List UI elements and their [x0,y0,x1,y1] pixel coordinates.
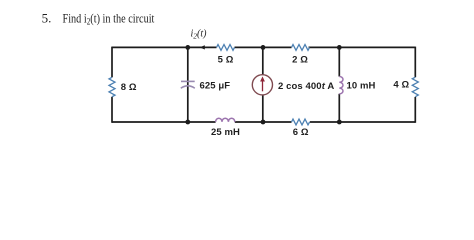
current source arrow [262,81,264,92]
wire capacitor branch (continuous through plates) [187,47,189,122]
svg-text:Find i2(t) in the circuit: Find i2(t) in the circuit [63,11,156,27]
wire source branch lower [262,95,264,122]
wire top middle segment [235,46,292,48]
svg-text:i2(t): i2(t) [191,29,208,41]
node bottom of 10mH branch [337,120,342,125]
capacitor C 625uF top plate [181,80,195,82]
wire top left segment [112,46,217,48]
wire source branch upper [262,47,264,75]
capacitor C 625uF bottom curved plate [181,86,195,88]
wire right branch lower [414,97,416,123]
svg-text:10 mH: 10 mH [347,81,376,92]
svg-text:2 cos 400t A: 2 cos 400t A [278,81,334,92]
current source circle [252,75,272,95]
wire left branch lower [111,97,113,123]
current arrow i2 on top wire [200,45,205,49]
wire bottom middle segment [235,121,292,123]
node bottom of source branch [261,120,266,125]
wire left branch upper [111,47,113,78]
svg-text:5.: 5. [42,10,52,25]
wire inductor branch upper [338,47,340,76]
resistor R 8ohm [109,77,115,96]
node top of source branch [261,45,266,50]
svg-text:625 μF: 625 μF [200,81,231,92]
svg-text:6 Ω: 6 Ω [293,127,309,138]
wire bottom left segment [112,121,216,123]
node top of capacitor branch [185,45,190,50]
resistor R 4ohm [412,77,418,96]
inductor L 25mH [216,118,235,122]
wire bottom right segment [310,121,416,123]
svg-text:4 Ω: 4 Ω [393,79,409,90]
svg-text:8 Ω: 8 Ω [121,82,137,93]
wire right branch upper [414,47,416,78]
svg-text:25 mH: 25 mH [211,127,240,138]
wire inductor branch lower [338,94,340,122]
node top of 10mH branch [337,45,342,50]
node bottom of capacitor branch [185,120,190,125]
resistor R 2ohm [292,45,310,51]
resistor R 5ohm [217,45,235,51]
resistor R 6ohm [292,119,310,125]
svg-text:2 Ω: 2 Ω [292,55,308,66]
wire top right segment [309,46,416,48]
svg-text:5 Ω: 5 Ω [218,55,234,66]
inductor L 10mH [339,77,343,94]
